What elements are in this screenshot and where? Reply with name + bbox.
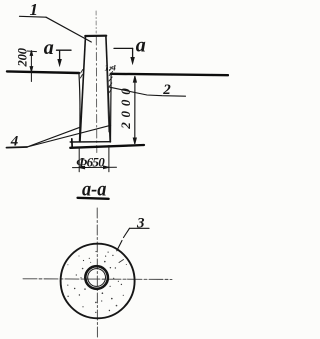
label 3 leader — [117, 228, 130, 251]
concrete stipple dots — [67, 251, 128, 313]
pit bottom thick line — [70, 145, 144, 148]
label 4 leader B — [27, 125, 111, 147]
pile right edge — [106, 36, 110, 142]
label 4 underline — [7, 146, 28, 149]
lower figure vertical centerline — [96, 208, 98, 337]
dimension D650 extension left — [78, 148, 80, 172]
pit wall right — [110, 75, 113, 143]
section mark a left — [57, 50, 72, 65]
dimension 2000 line — [133, 77, 136, 144]
stray mark near ring — [119, 260, 124, 263]
lower figure horizontal centerline — [23, 278, 172, 281]
pit bottom left stub — [71, 139, 73, 148]
label 4 leader A — [27, 127, 80, 147]
svg-text:200: 200 — [16, 47, 30, 67]
svg-text:1:4: 1:4 — [105, 63, 116, 73]
label 3 underline — [130, 227, 150, 229]
dimension D650 extension right — [108, 146, 110, 172]
pile top edge — [85, 35, 106, 37]
pit wall left — [79, 73, 80, 143]
label 2 leader — [110, 87, 186, 96]
pile right inner wall line — [107, 68, 109, 132]
pipe ring outer — [85, 266, 108, 289]
hatch ticks left of pile — [80, 70, 82, 79]
pipe ring inner — [88, 269, 106, 287]
centerline of pile (upper figure, vertical dash-dot) — [95, 11, 98, 153]
section cut line tick (left of dim 200) — [27, 50, 36, 53]
pile bottom edge — [70, 141, 110, 143]
svg-text:Ф650: Ф650 — [76, 155, 105, 170]
pile left edge — [80, 36, 86, 142]
ground line right — [111, 74, 228, 75]
section title underline — [78, 198, 109, 199]
dimension 200 line — [30, 51, 33, 82]
label 1 underline — [20, 15, 47, 18]
hatch ticks right of pile — [109, 67, 113, 94]
outer circle (pit section) — [61, 244, 135, 319]
ground line left — [7, 71, 79, 73]
dimension D650 line — [73, 166, 117, 169]
section mark a right — [114, 48, 134, 62]
svg-text:a: a — [136, 34, 146, 56]
label 1 leader — [46, 17, 91, 42]
svg-text:3: 3 — [136, 215, 145, 231]
svg-text:a: a — [44, 37, 54, 59]
